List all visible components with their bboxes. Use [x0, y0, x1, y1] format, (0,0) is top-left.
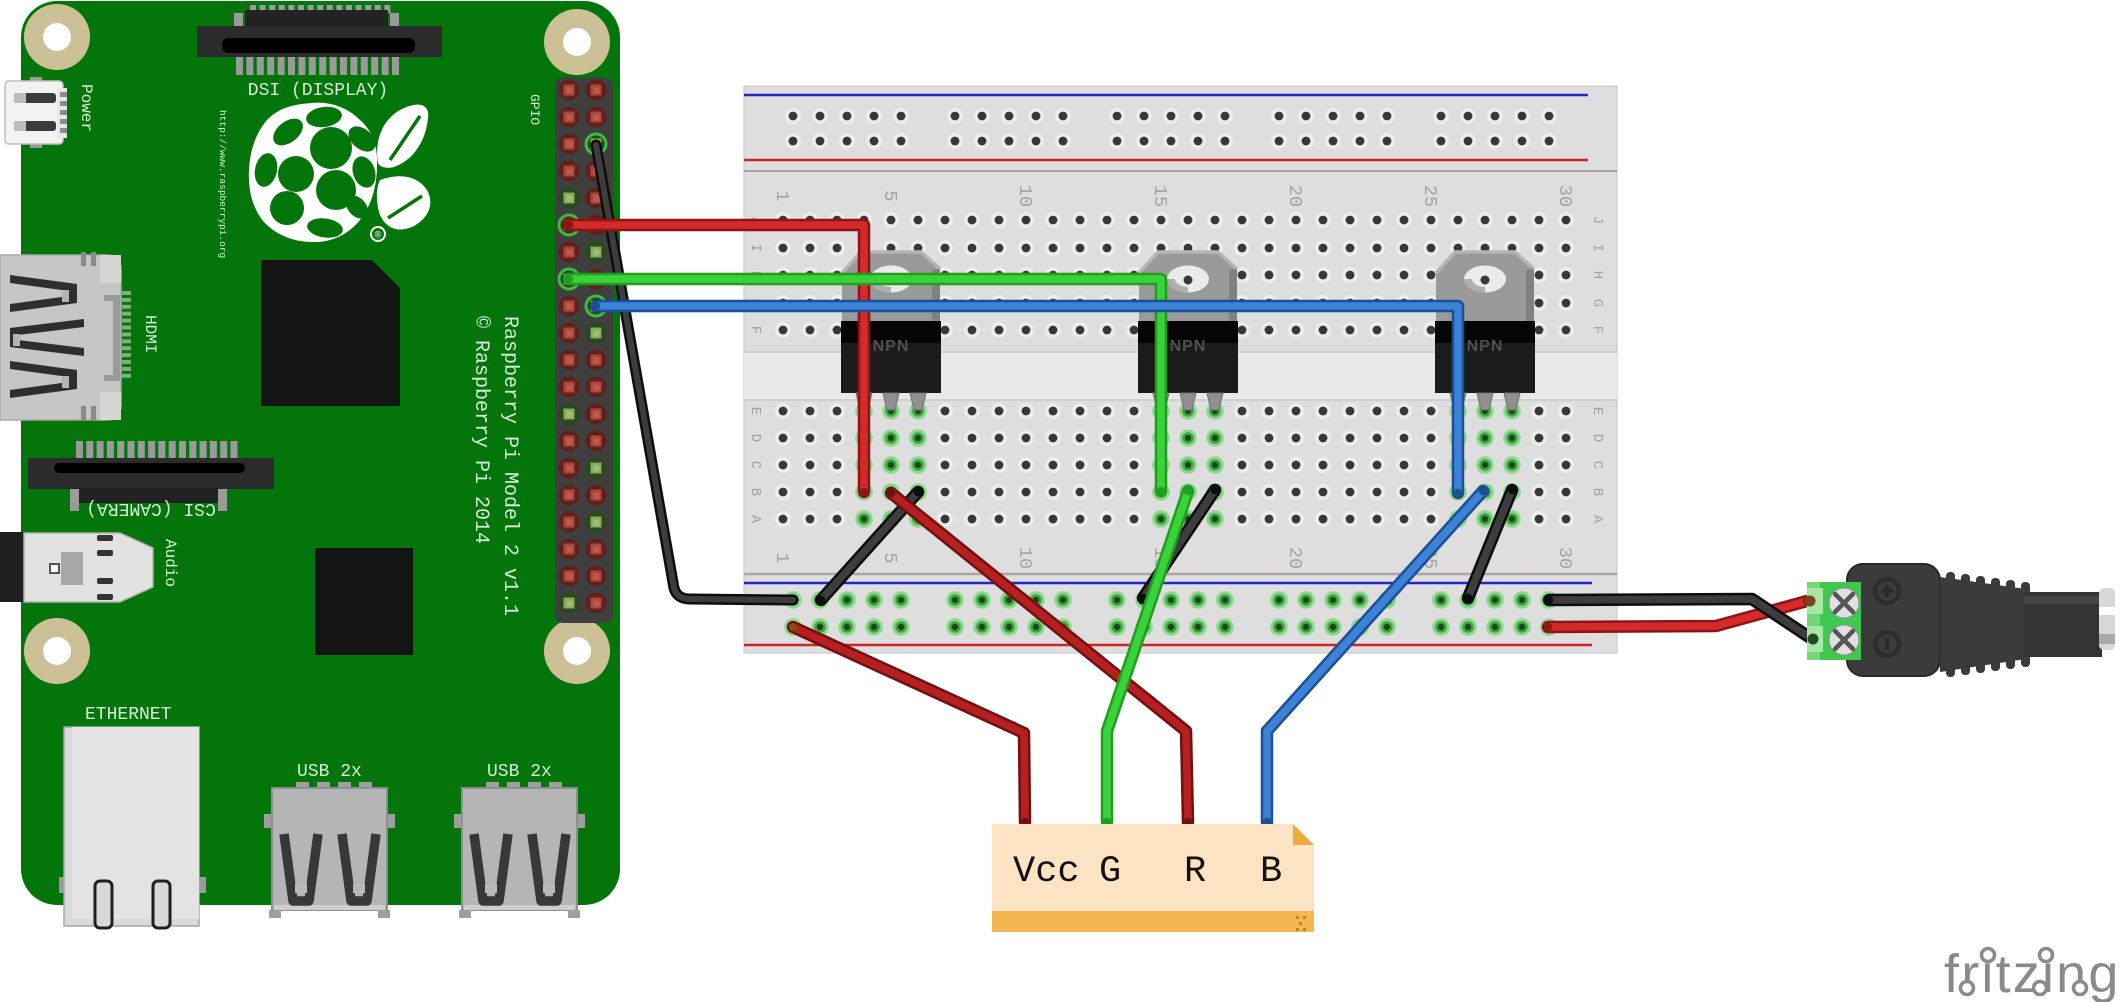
transistor Q3 NPN — [1435, 252, 1535, 410]
svg-text:I: I — [1589, 244, 1605, 252]
svg-text:1: 1 — [771, 190, 792, 201]
raspberrypi.org url — [217, 110, 228, 258]
model text — [498, 316, 521, 616]
svg-text:I: I — [747, 244, 763, 252]
USB port 1 — [264, 762, 395, 918]
svg-text:15: 15 — [1149, 185, 1170, 207]
fritzing logo — [1944, 941, 2121, 1002]
bottom power rail holes (connected) — [784, 591, 1558, 636]
GPIO pins — [559, 80, 607, 614]
wire black GPIO to bottom rail — [596, 145, 793, 600]
wire black Q1 to rail — [817, 488, 922, 604]
wire black Q2 to rail — [1139, 486, 1219, 602]
mounting hole 4 — [544, 618, 610, 684]
svg-text:E: E — [1589, 407, 1605, 415]
wire black Q3 to rail — [1464, 486, 1516, 602]
copyright text — [469, 316, 492, 544]
svg-text:F: F — [1589, 326, 1605, 334]
svg-text:H: H — [1589, 271, 1605, 279]
svg-text:A: A — [1589, 515, 1605, 524]
wire blue Q3 to label B — [1263, 487, 1487, 826]
svg-text:Raspberry Pi Model 2 v1.1: Raspberry Pi Model 2 v1.1 — [498, 316, 521, 616]
transistor Q2 NPN — [1138, 252, 1238, 410]
svg-text:CSI (CAMERA): CSI (CAMERA) — [86, 498, 216, 518]
svg-text:D: D — [747, 434, 763, 442]
power jack plug — [2024, 588, 2115, 657]
USB/ethernet controller chip — [315, 548, 413, 655]
wire black rail to power jack — [1545, 596, 1816, 643]
svg-text:F: F — [747, 326, 763, 334]
svg-text:C: C — [747, 461, 763, 469]
svg-text:GPIO: GPIO — [527, 94, 542, 125]
Audio jack — [0, 532, 153, 602]
mounting hole 3 — [24, 618, 90, 684]
note label Vcc G R B — [992, 824, 1314, 932]
breadboard main grid holes — [775, 212, 1574, 528]
svg-text:10: 10 — [1014, 547, 1035, 569]
top power rail holes — [785, 108, 1557, 149]
svg-text:C: C — [1589, 461, 1605, 469]
svg-text:USB 2x: USB 2x — [487, 762, 552, 782]
wire red rail to power jack — [1544, 597, 1811, 631]
GPIO header — [555, 77, 613, 624]
power jack strain relief — [1940, 572, 2030, 677]
svg-text:Vcc: Vcc — [1013, 851, 1080, 893]
svg-text:R: R — [1184, 851, 1206, 893]
svg-text:NPN: NPN — [873, 338, 910, 355]
svg-text:HDMI: HDMI — [141, 315, 159, 353]
svg-text:5: 5 — [879, 190, 900, 201]
screw terminal block — [1805, 582, 1862, 660]
GPIO label — [527, 94, 542, 125]
svg-text:E: E — [747, 407, 763, 415]
Audio label — [161, 539, 179, 587]
svg-text:B: B — [1589, 488, 1605, 496]
svg-text:30: 30 — [1554, 185, 1575, 207]
svg-text:http://www.raspberrypi.org: http://www.raspberrypi.org — [217, 110, 228, 258]
Ethernet jack — [59, 705, 206, 928]
wire red Q1 to label R — [887, 489, 1192, 826]
wire green Q2 to label G — [1103, 487, 1192, 826]
Power micro-USB connector — [5, 77, 67, 148]
svg-text:USB 2x: USB 2x — [297, 762, 362, 782]
svg-text:A: A — [747, 515, 763, 524]
raspberry pi logo — [249, 103, 430, 242]
svg-text:20: 20 — [1284, 185, 1305, 207]
wire blue GPIO to Q3 — [592, 302, 1462, 497]
svg-text:G: G — [1099, 851, 1121, 893]
GPIO connection rings — [559, 134, 606, 316]
svg-text:30: 30 — [1554, 547, 1575, 569]
svg-text:J: J — [1589, 216, 1605, 224]
svg-text:5: 5 — [879, 552, 900, 563]
svg-text:G: G — [1589, 299, 1605, 307]
svg-text:Power: Power — [77, 84, 95, 132]
breadboard column numbers — [771, 185, 1575, 569]
Power label — [77, 84, 95, 132]
DSI display connector — [197, 5, 442, 75]
HDMI connector — [0, 252, 131, 420]
svg-text:NPN: NPN — [1170, 338, 1207, 355]
svg-text:®: ® — [375, 230, 382, 240]
breadboard — [744, 86, 1617, 653]
wire green GPIO to Q2 — [565, 275, 1165, 495]
svg-text:NPN: NPN — [1467, 338, 1504, 355]
svg-text:B: B — [747, 488, 763, 496]
transistor Q1 NPN — [841, 252, 941, 410]
wire red Vcc rail to label — [789, 623, 1029, 826]
HDMI label — [141, 315, 159, 353]
USB port 2 — [454, 762, 585, 918]
svg-text:10: 10 — [1014, 185, 1035, 207]
CSI label — [86, 498, 216, 518]
mounting hole 1 — [24, 4, 90, 70]
Raspberry Pi board — [21, 1, 620, 905]
svg-text:1: 1 — [771, 552, 792, 563]
svg-text:25: 25 — [1419, 185, 1440, 207]
SoC chip — [261, 260, 400, 406]
DSI label — [248, 81, 388, 101]
wire red GPIO to Q1 — [565, 221, 868, 496]
CSI camera connector — [28, 441, 274, 511]
svg-text:DSI (DISPLAY): DSI (DISPLAY) — [248, 81, 388, 101]
svg-text:ETHERNET: ETHERNET — [85, 705, 172, 725]
mounting hole 2 — [544, 9, 610, 75]
svg-text:B: B — [1260, 851, 1282, 893]
svg-text:© Raspberry Pi 2014: © Raspberry Pi 2014 — [469, 316, 492, 544]
power jack barrel body — [1847, 564, 1940, 676]
breadboard row letters — [747, 216, 1605, 524]
svg-text:D: D — [1589, 434, 1605, 442]
svg-text:20: 20 — [1284, 547, 1305, 569]
svg-text:Audio: Audio — [161, 539, 179, 587]
